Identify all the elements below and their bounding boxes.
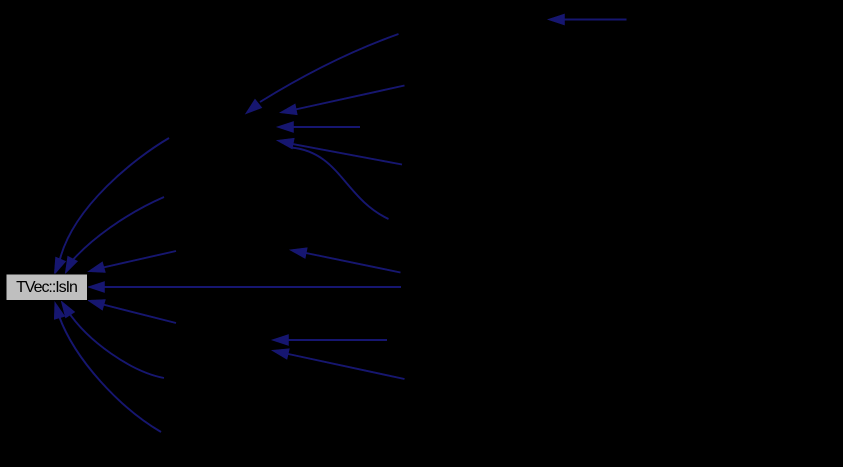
edge C (caller mid-F to TVec::IsIn bottom) — [55, 303, 162, 433]
edge E4a (right caller to mid node 2) — [278, 138, 403, 164]
edge R3 (caller mid-D to TVec::IsIn bottom-right) — [89, 300, 177, 323]
edge M2 (right caller to mid node 4) — [273, 349, 405, 379]
edge R1 (caller mid-C to TVec::IsIn top-right) — [89, 251, 177, 272]
edge E4b (right caller S-curve to mid node 2) — [291, 148, 389, 220]
edge M1 (right caller to mid node 4, horizontal) — [273, 335, 388, 345]
edge T (top-right caller to top-right node, horizontal) — [549, 14, 627, 24]
edge E5 (right caller to mid node 3) — [291, 248, 401, 273]
node TVec::IsIn (current function, grey box) — [6, 274, 88, 301]
svg-text:TVec::IsIn: TVec::IsIn — [16, 279, 77, 296]
edge E3 (right caller to mid node 2, horizontal) — [278, 122, 361, 132]
edge arc2 (caller mid-B to TVec::IsIn top) — [66, 197, 165, 273]
edge arc1 (caller mid-A to TVec::IsIn top) — [55, 138, 170, 274]
edge E2 (right caller to mid node 2) — [281, 86, 405, 115]
edge R2 (caller right to TVec::IsIn right, long horizontal) — [89, 282, 402, 292]
edge E1 (right caller arc to mid node 1) — [246, 34, 399, 114]
edge D (caller mid-E to TVec::IsIn bottom) — [62, 302, 165, 379]
